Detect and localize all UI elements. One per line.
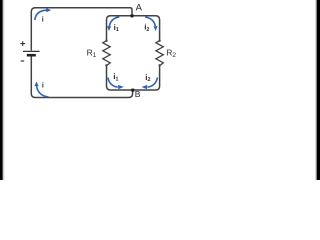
resistor R1 zigzag <box>103 41 110 66</box>
resistor R1 terminal dots <box>105 40 107 67</box>
battery positive plate <box>23 50 40 52</box>
arrowhead of current arrow i2 top <box>153 26 157 31</box>
battery negative plate <box>27 54 36 57</box>
current arrow i (bottom-left arc) <box>37 86 49 97</box>
arrowhead of current arrow i top-left <box>46 8 51 12</box>
svg-text:i: i <box>42 16 44 24</box>
right pillarbox bar <box>317 0 320 180</box>
svg-text:A: A <box>136 2 143 13</box>
arrowhead of current arrow i bottom-left <box>34 82 38 87</box>
arrowhead of current arrow i1 bottom <box>118 85 124 89</box>
left pillarbox bar <box>0 0 3 180</box>
arrowhead of current arrow i2 bottom <box>142 85 148 89</box>
current arrow i1 (top arc) <box>109 17 119 26</box>
wire: battery bottom to node B (outer loop bottom) <box>31 56 132 97</box>
resistor R2 terminal dots <box>158 40 160 67</box>
battery + label <box>20 41 25 46</box>
current arrow i2 (top arc) <box>145 17 155 26</box>
svg-text:i: i <box>42 82 44 90</box>
svg-text:B: B <box>135 89 141 99</box>
wire: battery top to node A (outer loop top) <box>31 8 132 50</box>
arrowhead of current arrow i1 top <box>107 26 111 31</box>
current arrow i1 (bottom arc) <box>108 78 118 88</box>
current arrow i2 (bottom arc) <box>148 78 158 88</box>
current arrow i (top-left arc) <box>35 10 47 20</box>
wire: inner loop top edge with corners <box>107 16 160 41</box>
battery - label <box>21 60 24 62</box>
node A junction square <box>131 14 134 17</box>
wire: inner loop bottom edge with corners <box>107 65 160 90</box>
resistor R2 zigzag <box>156 41 163 66</box>
node B junction square <box>131 89 134 92</box>
